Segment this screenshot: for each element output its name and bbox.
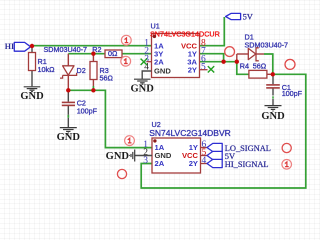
junction node R3 bottom (91, 88, 95, 92)
IC U1 SN74LVC3G14DCUR (triple inverter) (152, 34, 200, 78)
wire segment C1 bottom (272, 96, 274, 98)
port flag LO_SIGNAL (207, 143, 222, 151)
svg-text:3: 3 (143, 156, 148, 166)
ERC marker circled-1 near U2 pin1 (125, 136, 135, 146)
U2 pin2 ground flag (135, 155, 152, 157)
svg-text:SN74LVC3G14DCUR: SN74LVC3G14DCUR (150, 30, 220, 39)
svg-text:56Ω: 56Ω (100, 73, 114, 82)
svg-text:GND: GND (154, 67, 171, 76)
svg-text:100pF: 100pF (77, 106, 98, 115)
pin 5 stub + no-connect X (200, 69, 208, 71)
wire U1 pin8 to 5V (200, 17, 225, 46)
ERC marker circle near U1 pin8 (225, 47, 235, 57)
svg-text:10kΩ: 10kΩ (38, 65, 56, 74)
svg-text:0Ω: 0Ω (108, 49, 118, 58)
ground under C1 (265, 106, 282, 111)
ERC marker circled-1 above wire1 (121, 35, 131, 45)
svg-text:SN74LVC2G14DBVR: SN74LVC2G14DBVR (149, 128, 231, 138)
U1 pin4 wire to ground (142, 71, 151, 79)
ERC marker circle right of LO_SIGNAL (282, 143, 291, 152)
svg-text:SDM03U40-7: SDM03U40-7 (245, 41, 289, 50)
svg-text:HI: HI (5, 42, 14, 51)
wire HI net top (32, 45, 152, 47)
svg-text:100pF: 100pF (282, 89, 303, 98)
junction node R3 top (91, 52, 95, 56)
capacitor C1 (272, 76, 274, 106)
ground under U1 pin4 (134, 79, 151, 84)
svg-text:5: 5 (201, 62, 206, 72)
svg-text:D2: D2 (77, 66, 86, 75)
ERC marker circle near R4 (285, 59, 295, 69)
wire node J down to R4 left (237, 62, 249, 75)
svg-text:2A: 2A (155, 159, 165, 168)
svg-text:2A: 2A (154, 57, 164, 66)
U2 right pin stubs (201, 148, 208, 164)
svg-text:GND: GND (20, 91, 44, 102)
pin 3 stub + no-connect X (147, 61, 152, 63)
wire segment C2 bottom (67, 115, 69, 118)
junction node K (271, 72, 275, 76)
svg-text:4: 4 (202, 156, 207, 166)
svg-text:GND: GND (261, 111, 285, 122)
ERC marker circled-1 below R2 (121, 56, 131, 66)
wire R2 right to U1 pin2 (122, 53, 152, 55)
junction node pin6/7 tie (221, 60, 225, 64)
svg-text:GND: GND (106, 151, 130, 162)
wire U1 pin7 down to pin6 (200, 54, 224, 62)
resistor R1 (31, 46, 33, 86)
wire segment R3 bottom (92, 86, 94, 90)
junction node J (235, 60, 239, 64)
wire net3 bottom rail to U2 pin1 (68, 90, 152, 147)
port flag HI_SIGNAL (207, 159, 222, 167)
ground under R1 (24, 87, 41, 92)
ground under C2 (60, 128, 77, 133)
svg-text:HI_SIGNAL: HI_SIGNAL (225, 160, 269, 169)
svg-text:2Y: 2Y (189, 159, 198, 168)
svg-text:5V: 5V (243, 12, 253, 21)
junction node D2 bottom (66, 88, 70, 92)
svg-text:2Y: 2Y (188, 65, 197, 74)
wire U1 pin6 to node J (200, 61, 237, 63)
svg-text:GND: GND (57, 132, 81, 143)
wire net2 from D2 top to R2 left (68, 53, 105, 55)
diode D2 (schottky, vertical) (67, 54, 69, 66)
svg-text:R4: R4 (240, 62, 249, 71)
junction node HI/R1 (30, 44, 34, 48)
svg-text:GND: GND (131, 83, 155, 94)
port flag 5V (U2) (207, 151, 222, 159)
svg-text:56Ω: 56Ω (253, 62, 267, 71)
wire node K right, down right side, bottom, up to U2 pin3 (141, 74, 306, 188)
capacitor C2 (67, 90, 69, 127)
ERC marker circle below U2 GND flag (117, 169, 126, 178)
resistor R3 (92, 54, 94, 86)
wire D1 right to node K (264, 54, 273, 74)
power flag 5V top (226, 13, 241, 19)
ERC marker circled-1 right of HI_SIGNAL (282, 160, 292, 170)
svg-text:SDM03U40-7: SDM03U40-7 (44, 45, 88, 54)
